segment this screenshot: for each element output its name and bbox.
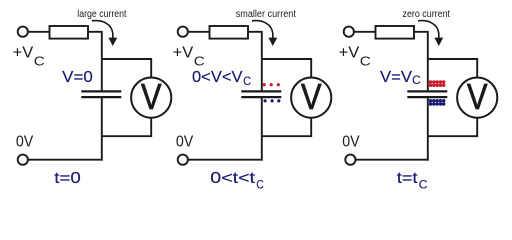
- svg-text:C: C: [194, 53, 205, 68]
- wire resistor to top corner then down to capacitor (circuit 3): [414, 32, 428, 91]
- wire bottom rail (circuit 1): [28, 159, 103, 161]
- negative charge dots on bottom plate (circuit 3): [429, 99, 446, 106]
- svg-text:C: C: [256, 178, 264, 191]
- wire terminal to resistor (circuit 2): [188, 31, 210, 33]
- wire capacitor down to bottom rail (circuit 1): [101, 98, 103, 161]
- svg-text:0V: 0V: [342, 134, 360, 151]
- terminal 0V (circuit 2): [178, 155, 188, 165]
- wire bottom rail (circuit 2): [188, 159, 263, 161]
- svg-text:C: C: [412, 74, 421, 87]
- positive charge dots on top plate (circuit 2): [263, 83, 280, 86]
- terminal +Vc (circuit 2): [178, 27, 188, 37]
- wire voltmeter bottom branch (circuit 3): [428, 118, 477, 137]
- svg-text:C: C: [360, 53, 371, 68]
- svg-text:V=0: V=0: [62, 69, 93, 86]
- svg-text:V: V: [141, 76, 162, 117]
- svg-text:C: C: [34, 53, 45, 68]
- svg-text:V=V: V=V: [380, 69, 413, 86]
- wire terminal to resistor (circuit 1): [28, 31, 50, 33]
- capacitor C bottom plate (circuit 3): [407, 96, 447, 98]
- terminal +Vc (circuit 3): [344, 27, 354, 37]
- voltmeter M (circuit 1): [131, 78, 171, 118]
- voltmeter M (circuit 2): [291, 78, 331, 118]
- current arrow (circuit 2): [252, 21, 273, 39]
- svg-text:0V: 0V: [176, 134, 194, 151]
- svg-text:C: C: [243, 75, 251, 88]
- svg-text:+V: +V: [13, 45, 34, 62]
- wire voltmeter bottom branch (circuit 2): [262, 118, 311, 137]
- capacitor C top plate (circuit 2): [241, 90, 281, 92]
- svg-text:0<V<V: 0<V<V: [192, 69, 243, 86]
- capacitor C top plate (circuit 3): [407, 90, 447, 92]
- wire capacitor down to bottom rail (circuit 3): [427, 98, 429, 161]
- negative charge dots on bottom plate (circuit 2): [264, 99, 281, 102]
- terminal +Vc (circuit 1): [18, 27, 28, 37]
- wire resistor to top corner then down to capacitor (circuit 2): [248, 32, 262, 91]
- terminal 0V (circuit 1): [18, 155, 28, 165]
- positive charge dots on top plate (circuit 3): [429, 80, 446, 87]
- resistor R (circuit 2): [210, 26, 249, 39]
- svg-text:0<t<t: 0<t<t: [210, 170, 256, 187]
- svg-text:0V: 0V: [16, 134, 34, 151]
- svg-text:V: V: [467, 76, 488, 117]
- svg-text:+V: +V: [339, 45, 360, 62]
- svg-text:t=0: t=0: [54, 170, 81, 187]
- capacitor C bottom plate (circuit 2): [241, 96, 281, 98]
- wire capacitor down to bottom rail (circuit 2): [261, 98, 263, 161]
- capacitor C top plate (circuit 1): [81, 90, 121, 92]
- wire terminal to resistor (circuit 3): [354, 31, 376, 33]
- wire bottom rail (circuit 3): [356, 159, 429, 161]
- terminal 0V (circuit 3): [345, 155, 355, 165]
- svg-text:V: V: [301, 76, 322, 117]
- svg-text:smaller current: smaller current: [236, 9, 296, 20]
- resistor R (circuit 3): [376, 26, 415, 39]
- svg-text:zero current: zero current: [403, 9, 451, 20]
- wire voltmeter top branch (circuit 3): [428, 59, 477, 78]
- svg-text:t=t: t=t: [397, 170, 418, 187]
- resistor R (circuit 1): [50, 26, 89, 39]
- svg-text:C: C: [419, 178, 428, 191]
- svg-text:large current: large current: [77, 9, 126, 20]
- current arrow (circuit 1): [92, 21, 113, 39]
- current arrow (circuit 3): [418, 21, 439, 39]
- wire voltmeter top branch (circuit 1): [102, 59, 151, 78]
- wire resistor to top corner then down to capacitor (circuit 1): [88, 32, 102, 91]
- voltmeter M (circuit 3): [457, 78, 497, 118]
- wire voltmeter top branch (circuit 2): [262, 59, 311, 78]
- svg-text:+V: +V: [173, 45, 194, 62]
- wire voltmeter bottom branch (circuit 1): [102, 118, 151, 137]
- capacitor C bottom plate (circuit 1): [81, 96, 121, 98]
